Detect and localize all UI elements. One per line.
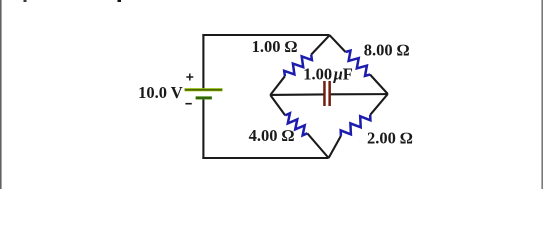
svg-text:1.00μF: 1.00μF bbox=[303, 65, 353, 84]
battery V 10.0 V: positive long plate bbox=[185, 88, 223, 91]
wire: lower lead of resistor R4 (bridge bottom node up-right) bbox=[329, 136, 341, 158]
wire: lower lead of resistor R3 (to bridge bottom node) bbox=[307, 133, 328, 158]
wire: capacitor branch right (right plate to bridge right node) bbox=[331, 93, 388, 95]
svg-text:2.00 Ω: 2.00 Ω bbox=[367, 128, 413, 147]
resistor R4 2.00 ohm zigzag bbox=[341, 115, 371, 136]
battery minus sign bbox=[185, 103, 191, 105]
capacitor C1 left plate bbox=[323, 81, 326, 106]
resistor R1 1.00 ohm zigzag bbox=[284, 55, 312, 77]
resistor R2 8.00 ohm zigzag bbox=[346, 51, 371, 76]
wire: left vertical lower segment (battery - terminal to bottom wire) bbox=[202, 98, 204, 159]
wire: upper lead of resistor R2 (bridge top node down-right) bbox=[330, 35, 346, 52]
wire: upper lead of resistor R1 (to bridge top node) bbox=[311, 35, 329, 54]
wire: capacitor branch left (bridge left node to left plate) bbox=[270, 93, 323, 96]
wire: upper lead of resistor R4 (to bridge right node) bbox=[370, 94, 388, 115]
svg-text:8.00 Ω: 8.00 Ω bbox=[364, 41, 410, 60]
wire: left vertical upper segment (battery + terminal to top wire) bbox=[202, 34, 204, 88]
resistor R3 4.00 ohm zigzag bbox=[285, 113, 307, 135]
capacitor C1 right plate bbox=[328, 81, 331, 106]
wire: bottom horizontal from battery to bridge bottom node bbox=[202, 157, 328, 159]
clipped text speck top-middle bbox=[118, 0, 122, 2]
svg-text:10.0 V: 10.0 V bbox=[138, 83, 183, 102]
right frame border bbox=[541, 0, 543, 189]
svg-text:4.00 Ω: 4.00 Ω bbox=[249, 126, 295, 145]
wire: top horizontal from battery to bridge top node bbox=[202, 34, 329, 36]
wire: lower lead of resistor R2 (to bridge right node) bbox=[370, 75, 388, 95]
svg-text:1.00 Ω: 1.00 Ω bbox=[252, 37, 298, 56]
left frame border bbox=[0, 0, 2, 189]
battery V 10.0 V: negative short plate bbox=[196, 96, 212, 99]
wire: upper lead of resistor R3 (bridge left node down-right) bbox=[270, 95, 285, 115]
battery plus sign bbox=[186, 74, 193, 81]
clipped text speck top-left bbox=[24, 0, 27, 2]
wire: lower lead of resistor R1 (bridge left node up-right) bbox=[270, 76, 285, 95]
